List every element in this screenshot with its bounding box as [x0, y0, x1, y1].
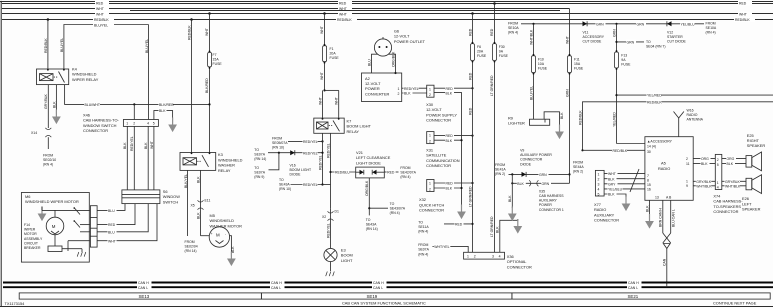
svg-text:M: M [52, 224, 56, 229]
wire YEL/RED feed off page right [617, 93, 773, 98]
connector strip on M6 right edge [90, 206, 97, 247]
converter A2 12-volt power converter box [362, 73, 402, 102]
connector X30 [427, 85, 434, 97]
svg-text:RED/BLK: RED/BLK [579, 110, 583, 125]
node reference FROM SE42/07A RN4 [400, 166, 416, 179]
node fuse end caps [209, 42, 618, 75]
svg-text:ORG/BLK: ORG/BLK [391, 51, 395, 67]
ground arrow X35 [508, 207, 517, 222]
wire G6 right pin ORG/BLK to A2 [389, 51, 397, 74]
wire bus WHT y=14 [2, 12, 773, 17]
svg-text:GRN: GRN [596, 22, 604, 26]
svg-text:WHT: WHT [339, 13, 348, 17]
wire X32 BLK to rail [434, 186, 463, 191]
svg-text:CUT DIODE: CUT DIODE [667, 40, 687, 44]
svg-text:RED: RED [468, 72, 472, 80]
label X35 CAB HARNESS AUXILIARY POWER CONNECTOR 1 [539, 189, 564, 211]
svg-text:CONNECTOR: CONNECTOR [713, 209, 738, 214]
svg-text:RED/YEL: RED/YEL [303, 151, 318, 155]
svg-text:SE02/10: SE02/10 [43, 158, 56, 162]
node reference FROM SE41A RN2 [495, 163, 506, 176]
svg-text:D1: D1 [335, 210, 339, 214]
svg-text:GRN: GRN [565, 89, 569, 97]
svg-text:(RN 4): (RN 4) [418, 252, 428, 256]
svg-text:2: 2 [429, 187, 431, 191]
node reference TO SE07A RN9 right of K3 [254, 166, 265, 179]
svg-text:1: 1 [686, 180, 688, 184]
svg-text:AUXILIARY POWER: AUXILIARY POWER [520, 153, 552, 157]
wire V21 right RED to reference [384, 170, 398, 175]
fuse F10 10A [532, 56, 548, 73]
svg-text:1: 1 [398, 87, 400, 91]
svg-text:SE43A: SE43A [279, 183, 290, 187]
svg-text:RED/BLK: RED/BLK [613, 149, 628, 153]
svg-text:RED: RED [468, 107, 472, 115]
ground arrow right of X46 [168, 118, 177, 133]
svg-text:RED/YEL: RED/YEL [318, 155, 322, 170]
svg-text:TO: TO [646, 40, 651, 44]
wire BLU/YEL bus drop to X46 pin 4 [145, 25, 149, 120]
ground arrow lighter [555, 125, 564, 140]
svg-text:WHT: WHT [608, 172, 617, 176]
fuse F30 9A [493, 44, 509, 61]
svg-text:3: 3 [492, 255, 494, 259]
svg-text:(RN 2): (RN 2) [495, 172, 505, 176]
ground arrow X36 pin4 [513, 219, 522, 234]
svg-text:CAN L: CAN L [373, 286, 383, 290]
svg-text:SE13: SE13 [139, 294, 150, 299]
svg-text:BLK: BLK [508, 195, 512, 202]
connector X77 radio auxiliary connector [595, 170, 604, 196]
svg-text:FUSE: FUSE [330, 56, 340, 60]
section bar SE13 [19, 293, 261, 299]
wire S6 to M6 connector BLU 2 [97, 204, 148, 235]
label V21 LEFT CLEARANCE LIGHT DIODE [356, 150, 391, 165]
svg-text:(RN 9): (RN 9) [254, 175, 264, 179]
svg-text:X14: X14 [31, 131, 37, 135]
svg-text:WHT: WHT [150, 140, 154, 149]
svg-text:F11: F11 [574, 58, 580, 62]
label V11 ACCESSORY CUT DIODE [583, 31, 605, 44]
svg-text:YEL/BLU: YEL/BLU [681, 22, 696, 26]
fuse F1 20A [323, 46, 340, 62]
wire S6 to M6 connector BLU [97, 204, 125, 213]
label X31 SATELLITE COMMUNICATION CONNECTOR [426, 147, 460, 168]
svg-text:SE21: SE21 [628, 294, 639, 299]
svg-text:RED/YEL: RED/YEL [130, 136, 134, 151]
svg-text:BOOM LIGHT: BOOM LIGHT [290, 168, 312, 172]
svg-text:15A: 15A [574, 62, 581, 66]
label X36 OPTIONAL CONNECTOR [507, 254, 532, 269]
svg-text:LT GRN/RED: LT GRN/RED [490, 216, 494, 237]
svg-text:TO: TO [254, 148, 259, 152]
svg-text:CONNECTOR: CONNECTOR [594, 218, 619, 223]
node reference TO SE43/07A RN4 [390, 202, 406, 215]
ground arrow radio [645, 214, 654, 229]
wire X74 GRY/BLK to left speaker [722, 179, 746, 184]
CAN L thick line [3, 285, 773, 290]
relay K7 [314, 118, 344, 133]
svg-text:WHT/BLK: WHT/BLK [696, 184, 712, 188]
svg-text:BLU: BLU [367, 59, 371, 66]
label X46 CAB HARNESS-TO-WINDOW SWITCH CONNECTOR [83, 113, 120, 134]
node reference TO SE11A RN4 [418, 220, 429, 233]
svg-text:RELAY: RELAY [218, 168, 231, 173]
svg-text:(RN 14): (RN 14) [185, 249, 197, 253]
wire G6 left pin BLU to A2 [367, 54, 377, 73]
svg-text:CAB CAN SYSTEM FUNCTIONAL SCHE: CAB CAN SYSTEM FUNCTIONAL SCHEMATIC [342, 300, 426, 305]
wire K3 left pin BLK/YEL down to reference [184, 170, 188, 236]
wire F10 drop WHT/BLK to lighter [529, 24, 533, 119]
svg-text:DIODE: DIODE [520, 162, 532, 166]
wire X31 BLK to rail [434, 138, 463, 143]
wire twisted pair crossover to CAN bus [663, 233, 671, 287]
svg-text:WIPER: WIPER [24, 228, 36, 232]
svg-text:BLK: BLK [701, 162, 708, 166]
relay K3 [180, 152, 216, 170]
svg-text:TX1173154: TX1173154 [5, 301, 26, 306]
svg-text:SE41A: SE41A [495, 168, 506, 172]
wire RED/BLU to V21 [331, 170, 356, 175]
svg-text:LT GRN/RED: LT GRN/RED [490, 75, 494, 96]
svg-text:A5: A5 [661, 161, 666, 166]
svg-text:+: + [211, 232, 213, 236]
svg-text:RED/YEL: RED/YEL [303, 140, 318, 144]
svg-text:F13: F13 [621, 54, 627, 58]
wire X74 WHT/BLK to left speaker [722, 184, 746, 189]
svg-text:FROM: FROM [418, 243, 428, 247]
svg-text:WHT: WHT [318, 96, 322, 105]
node junction K7 feed split [323, 89, 325, 91]
svg-text:WINDSHIELD WIPER MOTOR: WINDSHIELD WIPER MOTOR [25, 199, 79, 204]
wire M6 internal top [41, 207, 43, 211]
svg-text:AUXILIARY: AUXILIARY [539, 199, 558, 203]
svg-text:F10: F10 [538, 58, 544, 62]
svg-text:V9: V9 [520, 149, 524, 153]
svg-text:FUSE: FUSE [621, 63, 631, 67]
svg-text:CONNECTOR: CONNECTOR [426, 118, 451, 123]
svg-text:ASSEMBLY: ASSEMBLY [24, 237, 43, 241]
lighter R9 [530, 119, 550, 125]
node junction dot on WHT bus feeding F6 [471, 12, 474, 15]
svg-text:ORG: ORG [701, 157, 709, 161]
svg-text:FROM: FROM [495, 163, 505, 167]
wire YEL/RED accessory into radio acc pin [617, 143, 645, 145]
svg-text:RED/BLK: RED/BLK [188, 25, 192, 40]
svg-text:2: 2 [398, 92, 400, 96]
svg-text:F1: F1 [330, 47, 334, 51]
svg-text:CONNECTOR: CONNECTOR [83, 128, 108, 133]
radio A5 box [645, 137, 693, 201]
svg-text:RED/BLK: RED/BLK [735, 18, 750, 22]
wire X77 pin1 WHT to radio [604, 171, 645, 176]
label E3 BOOM LIGHT [341, 248, 353, 263]
label X30 12-VOLT POWER SUPPLY CONNECTOR [426, 102, 457, 123]
connector X36 optional connector [464, 252, 505, 259]
wire X2 to lamp RED/YEL [326, 209, 330, 249]
svg-text:SE43/07A: SE43/07A [390, 206, 406, 210]
wire radio CAN H drop [659, 200, 663, 233]
node junction dot on RED/BLK bus feeding K3 [190, 18, 193, 21]
svg-text:WHT: WHT [320, 25, 324, 34]
wire motor to internal bus [54, 210, 56, 217]
svg-text:4: 4 [499, 255, 501, 259]
wire X46 pin1 down to S6 [123, 126, 127, 189]
svg-text:CONNECTOR: CONNECTOR [419, 208, 444, 213]
wire X30 BLK to rail corner [434, 90, 462, 209]
wire K7 left pin vertical down [318, 133, 322, 184]
svg-text:YEL/RED: YEL/RED [613, 112, 617, 127]
wire bus through F30 down to X36 pin3 [490, 4, 494, 253]
svg-text:BLU/YEL: BLU/YEL [145, 39, 149, 53]
svg-text:(RN 14): (RN 14) [254, 157, 266, 161]
wire motor bottom to breaker [54, 235, 56, 246]
svg-text:CONVERTER: CONVERTER [365, 91, 390, 96]
connector X2 inline [322, 210, 339, 221]
connector X35 inline [529, 180, 538, 186]
switch contacts inside M6 [68, 207, 90, 251]
node reference FROM SE05/07A RN10 [272, 136, 288, 149]
wire K4 pin to X14 connector GRY/BLK [44, 85, 48, 128]
svg-text:CONNECTOR: CONNECTOR [426, 163, 451, 168]
svg-text:SWITCH: SWITCH [163, 199, 179, 204]
wire split to K7 both coils [318, 90, 338, 118]
svg-text:30: 30 [647, 150, 651, 154]
wire X46 pin5 BLK up right to ground [154, 108, 173, 122]
svg-text:SE07A: SE07A [418, 248, 429, 252]
svg-text:2: 2 [598, 177, 600, 181]
wire X46 pin2 down to S6 [130, 126, 134, 189]
svg-text:9: 9 [686, 184, 688, 188]
svg-text:MOTOR: MOTOR [24, 232, 37, 236]
svg-text:RED: RED [468, 28, 472, 36]
svg-text:(RN 2): (RN 2) [573, 170, 583, 174]
svg-text:SE19: SE19 [367, 294, 378, 299]
svg-text:FUSE: FUSE [499, 54, 509, 58]
svg-text:WHT/BLK: WHT/BLK [725, 184, 741, 188]
connector X14 inline [31, 128, 51, 137]
wire X74 BLK to right speaker [722, 161, 746, 166]
svg-text:FROM: FROM [400, 166, 410, 170]
svg-text:2: 2 [474, 255, 476, 259]
ground arrow BLK rail [457, 205, 466, 220]
svg-text:F7: F7 [213, 53, 217, 57]
svg-text:SE42/07A: SE42/07A [400, 171, 416, 175]
svg-text:CIRCUIT: CIRCUIT [24, 241, 39, 245]
svg-text:BLU/WHT: BLU/WHT [85, 103, 101, 107]
wire A2 pin1 RED/YEL to X30 [402, 86, 427, 91]
svg-text:GRN: GRN [539, 173, 547, 177]
svg-text:F6: F6 [477, 45, 481, 49]
svg-text:WHT/BLK: WHT/BLK [529, 29, 533, 45]
wire X77 pin2 BLK to radio [604, 176, 645, 181]
svg-text:SE07A: SE07A [254, 171, 265, 175]
svg-text:FROM: FROM [573, 161, 583, 165]
svg-text:CAN H: CAN H [628, 281, 639, 285]
svg-text:WHT: WHT [108, 239, 117, 243]
node junction dot on RED bus feeding F30 [493, 2, 496, 5]
svg-text:RED/BLK: RED/BLK [44, 38, 48, 53]
svg-text:3: 3 [598, 183, 600, 187]
wire bus RED y=3 [2, 1, 773, 6]
svg-text:-: - [225, 232, 226, 236]
svg-text:FROM: FROM [272, 136, 282, 140]
node junction dot on RED/BLK bus feeding K4 [47, 18, 50, 21]
wire bus through F1 down to K7 [320, 14, 325, 91]
svg-text:TO: TO [254, 166, 259, 170]
power outlet G6 [374, 37, 391, 56]
svg-text:WHT: WHT [565, 35, 569, 44]
wire X36 pin4 BLK up and to ground [496, 219, 518, 252]
svg-text:1: 1 [429, 87, 431, 91]
wire bus BLU/YEL y=24.9 from x=65 to X46 drop [65, 23, 149, 28]
label F14 wiper motor assembly circuit breaker [24, 223, 43, 250]
svg-text:V16: V16 [290, 164, 296, 168]
wire BLU/YEL bus corner down to K4 top pin [60, 25, 65, 70]
svg-text:TO: TO [418, 220, 423, 224]
speaker E25 right [746, 152, 762, 171]
wire X77 pin4 YEL/BLU to radio [604, 187, 645, 192]
svg-text:BLK: BLK [197, 176, 201, 183]
wire tap down to X46 pin 2 [133, 103, 135, 105]
svg-text:15A: 15A [213, 58, 220, 62]
svg-text:CAB HARNESS: CAB HARNESS [539, 194, 564, 198]
wire RED/BLK battery feed L off page right [579, 100, 773, 151]
wire bus through F6 down to X36 pin2 [468, 14, 472, 253]
ground arrow inside M6 [38, 207, 47, 222]
wire lamp to chassis ground [330, 262, 332, 271]
ground arrow below M5 [227, 252, 236, 267]
label X74 CAB HARNESS-TO-SPEAKERS CONNECTOR [713, 194, 743, 215]
wire X46 pin5 down to S6 [150, 126, 154, 189]
wire K4 middle pin BLK to ground [52, 85, 56, 114]
svg-text:X35: X35 [539, 189, 545, 193]
node reference TO SE43A RN14 [366, 218, 378, 231]
svg-text:FUSE: FUSE [477, 54, 487, 58]
svg-text:WIPER RELAY: WIPER RELAY [72, 77, 99, 82]
motor M5 windshield washer motor [209, 227, 229, 247]
svg-text:(RN 4): (RN 4) [43, 163, 53, 167]
svg-text:V12: V12 [667, 31, 673, 35]
svg-text:GRY/BLK: GRY/BLK [725, 180, 741, 184]
wire branch GRN to reference TO SE04 [617, 40, 645, 45]
node junction at K4 wire meet x209 [208, 103, 210, 105]
svg-text:RED/YEL: RED/YEL [404, 87, 419, 91]
svg-text:BLK: BLK [608, 177, 615, 181]
svg-text:WHT/YEL: WHT/YEL [434, 245, 449, 249]
node reference FROM SE02/04 [185, 240, 198, 253]
svg-text:POWER: POWER [539, 203, 553, 207]
wire S6 to M6 connector RED [97, 204, 135, 228]
svg-text:ORG: ORG [727, 157, 735, 161]
wire RED/YEL to junction y184.5 [291, 182, 324, 187]
svg-text:RED: RED [108, 223, 116, 227]
svg-text:RADIO: RADIO [658, 166, 670, 171]
svg-text:LT GRN/RED: LT GRN/RED [468, 186, 472, 207]
node reference FROM SE02/10 [43, 154, 56, 167]
svg-text:GRY: GRY [608, 182, 616, 186]
svg-text:POWER OUTLET: POWER OUTLET [394, 39, 426, 44]
wire GRN drop from accessory feed to radio with branch [613, 24, 618, 144]
wire radio ORG to X74 [693, 156, 715, 161]
svg-text:CAN H: CAN H [271, 281, 282, 285]
wire branch to reference TO SE07A RN9 [269, 153, 279, 170]
svg-text:TO: TO [390, 202, 395, 206]
svg-text:ANTENNA: ANTENNA [687, 118, 704, 122]
wire X46 pin4 down to S6 [144, 126, 148, 189]
svg-text:WASHER MOTOR: WASHER MOTOR [210, 223, 243, 228]
wire X74 ORG to right speaker [722, 156, 746, 161]
svg-text:BLK: BLK [560, 112, 564, 119]
svg-text:FUSE: FUSE [574, 67, 584, 71]
svg-text:E11: E11 [205, 199, 211, 203]
svg-text:WHT: WHT [739, 13, 748, 17]
svg-text:1: 1 [126, 122, 128, 126]
wire lighter ground BLK [544, 112, 564, 125]
svg-text:(RN 10): (RN 10) [272, 146, 284, 150]
svg-text:(RN 4): (RN 4) [418, 230, 428, 234]
wire X77 pin3 GRY to radio [604, 182, 645, 187]
svg-text:GRN: GRN [613, 29, 617, 37]
svg-text:4: 4 [717, 185, 719, 189]
node reference TO SE43A RN10 [279, 178, 291, 191]
svg-text:SPEAKER: SPEAKER [742, 207, 761, 212]
wire slash mark harness X77 group [630, 169, 639, 192]
wire bus RED/BLK y=19.5 [2, 17, 773, 22]
wire K3 right pin BLK down to X5 [197, 170, 201, 235]
svg-text:RED: RED [446, 87, 454, 91]
svg-text:GRY/BLK: GRY/BLK [44, 93, 48, 109]
svg-text:11: 11 [686, 162, 690, 166]
svg-text:1: 1 [598, 172, 600, 176]
label K4 WINDSHIELD WIPER RELAY [72, 67, 99, 82]
svg-text:4: 4 [147, 122, 149, 126]
fuse F7 15A [208, 52, 223, 67]
svg-text:RED/YEL: RED/YEL [326, 143, 330, 158]
connector X32 [427, 180, 434, 192]
wire M5 right pin BLK to ground [230, 236, 235, 257]
label S6 WINDOW SWITCH [163, 189, 180, 204]
wire V16 diode branch RED/YEL [268, 150, 324, 155]
diode V12 starter cut diode [667, 21, 672, 26]
svg-text:SE43A: SE43A [366, 222, 377, 226]
wire A2 pin2 BLK to X30 [402, 91, 427, 96]
svg-text:BLU/YEL: BLU/YEL [60, 38, 64, 52]
svg-text:BLK: BLK [123, 142, 127, 149]
svg-text:GRN: GRN [637, 22, 645, 26]
svg-text:RED: RED [490, 28, 494, 36]
svg-text:1: 1 [717, 181, 719, 185]
wire reference to K7 left pin RED/YEL [288, 139, 324, 144]
svg-text:5: 5 [598, 193, 600, 197]
svg-text:8: 8 [647, 179, 649, 183]
label K7 BOOM LIGHT RELAY [347, 118, 372, 133]
wire radio GRY/BLK to X74 [693, 179, 715, 184]
wire bus through F7 down to K3 right pin [205, 14, 210, 153]
svg-text:RED: RED [446, 134, 454, 138]
svg-text:RED/BLK: RED/BLK [647, 100, 662, 104]
chassis ground 777 inside M6 [77, 252, 86, 257]
label X77 RADIO AUXILIARY CONNECTOR [594, 202, 619, 223]
svg-text:CAN L: CAN L [138, 286, 148, 290]
svg-text:CAN L: CAN L [271, 286, 281, 290]
svg-text:▲ACCESSORY: ▲ACCESSORY [647, 140, 673, 144]
svg-text:1: 1 [429, 134, 431, 138]
node reference TO SE07A RN14 right of K3 [254, 148, 266, 161]
svg-text:SE02/04: SE02/04 [185, 245, 198, 249]
wire branch right TO SE43/07A [369, 207, 388, 209]
svg-text:20A: 20A [330, 52, 337, 56]
